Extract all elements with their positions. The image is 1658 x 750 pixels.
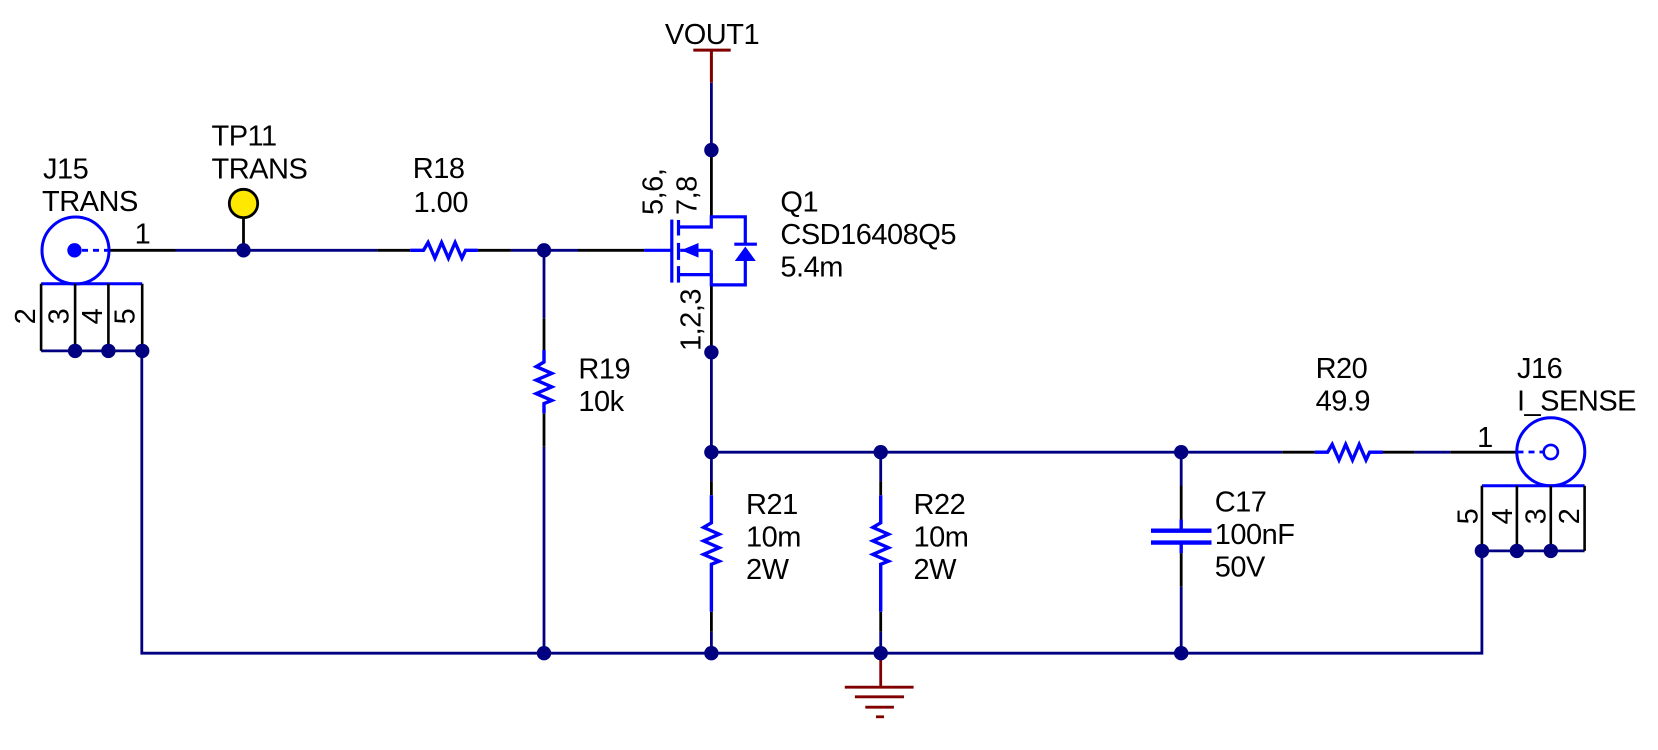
svg-text:1,2,3: 1,2,3 xyxy=(676,289,708,351)
svg-text:R20: R20 xyxy=(1316,353,1368,385)
svg-text:5,6,: 5,6, xyxy=(638,169,670,215)
svg-text:2W: 2W xyxy=(746,554,790,586)
svg-text:4: 4 xyxy=(1487,508,1519,524)
svg-text:1: 1 xyxy=(1477,422,1493,454)
svg-text:TRANS: TRANS xyxy=(42,186,138,218)
svg-text:R21: R21 xyxy=(746,489,798,521)
svg-text:J16: J16 xyxy=(1517,353,1562,385)
svg-text:R19: R19 xyxy=(578,354,630,386)
svg-text:Q1: Q1 xyxy=(780,187,818,219)
svg-text:C17: C17 xyxy=(1215,487,1267,519)
svg-text:10m: 10m xyxy=(914,522,969,554)
svg-text:7,8: 7,8 xyxy=(672,176,704,215)
svg-text:49.9: 49.9 xyxy=(1316,386,1370,418)
svg-text:3: 3 xyxy=(1520,509,1552,525)
svg-text:4: 4 xyxy=(77,308,109,324)
svg-text:5.4m: 5.4m xyxy=(780,252,842,284)
svg-text:TRANS: TRANS xyxy=(212,154,308,186)
svg-text:1: 1 xyxy=(135,219,151,251)
svg-text:3: 3 xyxy=(44,309,76,325)
svg-text:I_SENSE: I_SENSE xyxy=(1517,386,1636,418)
svg-text:1.00: 1.00 xyxy=(414,187,468,219)
svg-text:5: 5 xyxy=(110,309,142,325)
svg-text:J15: J15 xyxy=(43,154,88,186)
svg-text:10k: 10k xyxy=(578,386,624,418)
svg-text:TP11: TP11 xyxy=(212,121,277,153)
svg-text:CSD16408Q5: CSD16408Q5 xyxy=(780,219,956,251)
svg-text:R22: R22 xyxy=(914,489,966,521)
svg-text:2: 2 xyxy=(10,309,42,325)
svg-text:50V: 50V xyxy=(1215,552,1266,584)
svg-text:10m: 10m xyxy=(746,522,801,554)
svg-text:5: 5 xyxy=(1453,509,1485,525)
svg-text:2W: 2W xyxy=(914,554,958,586)
svg-text:100nF: 100nF xyxy=(1215,519,1295,551)
svg-text:VOUT1: VOUT1 xyxy=(665,19,759,51)
svg-text:R18: R18 xyxy=(413,153,465,185)
svg-text:2: 2 xyxy=(1554,509,1586,525)
